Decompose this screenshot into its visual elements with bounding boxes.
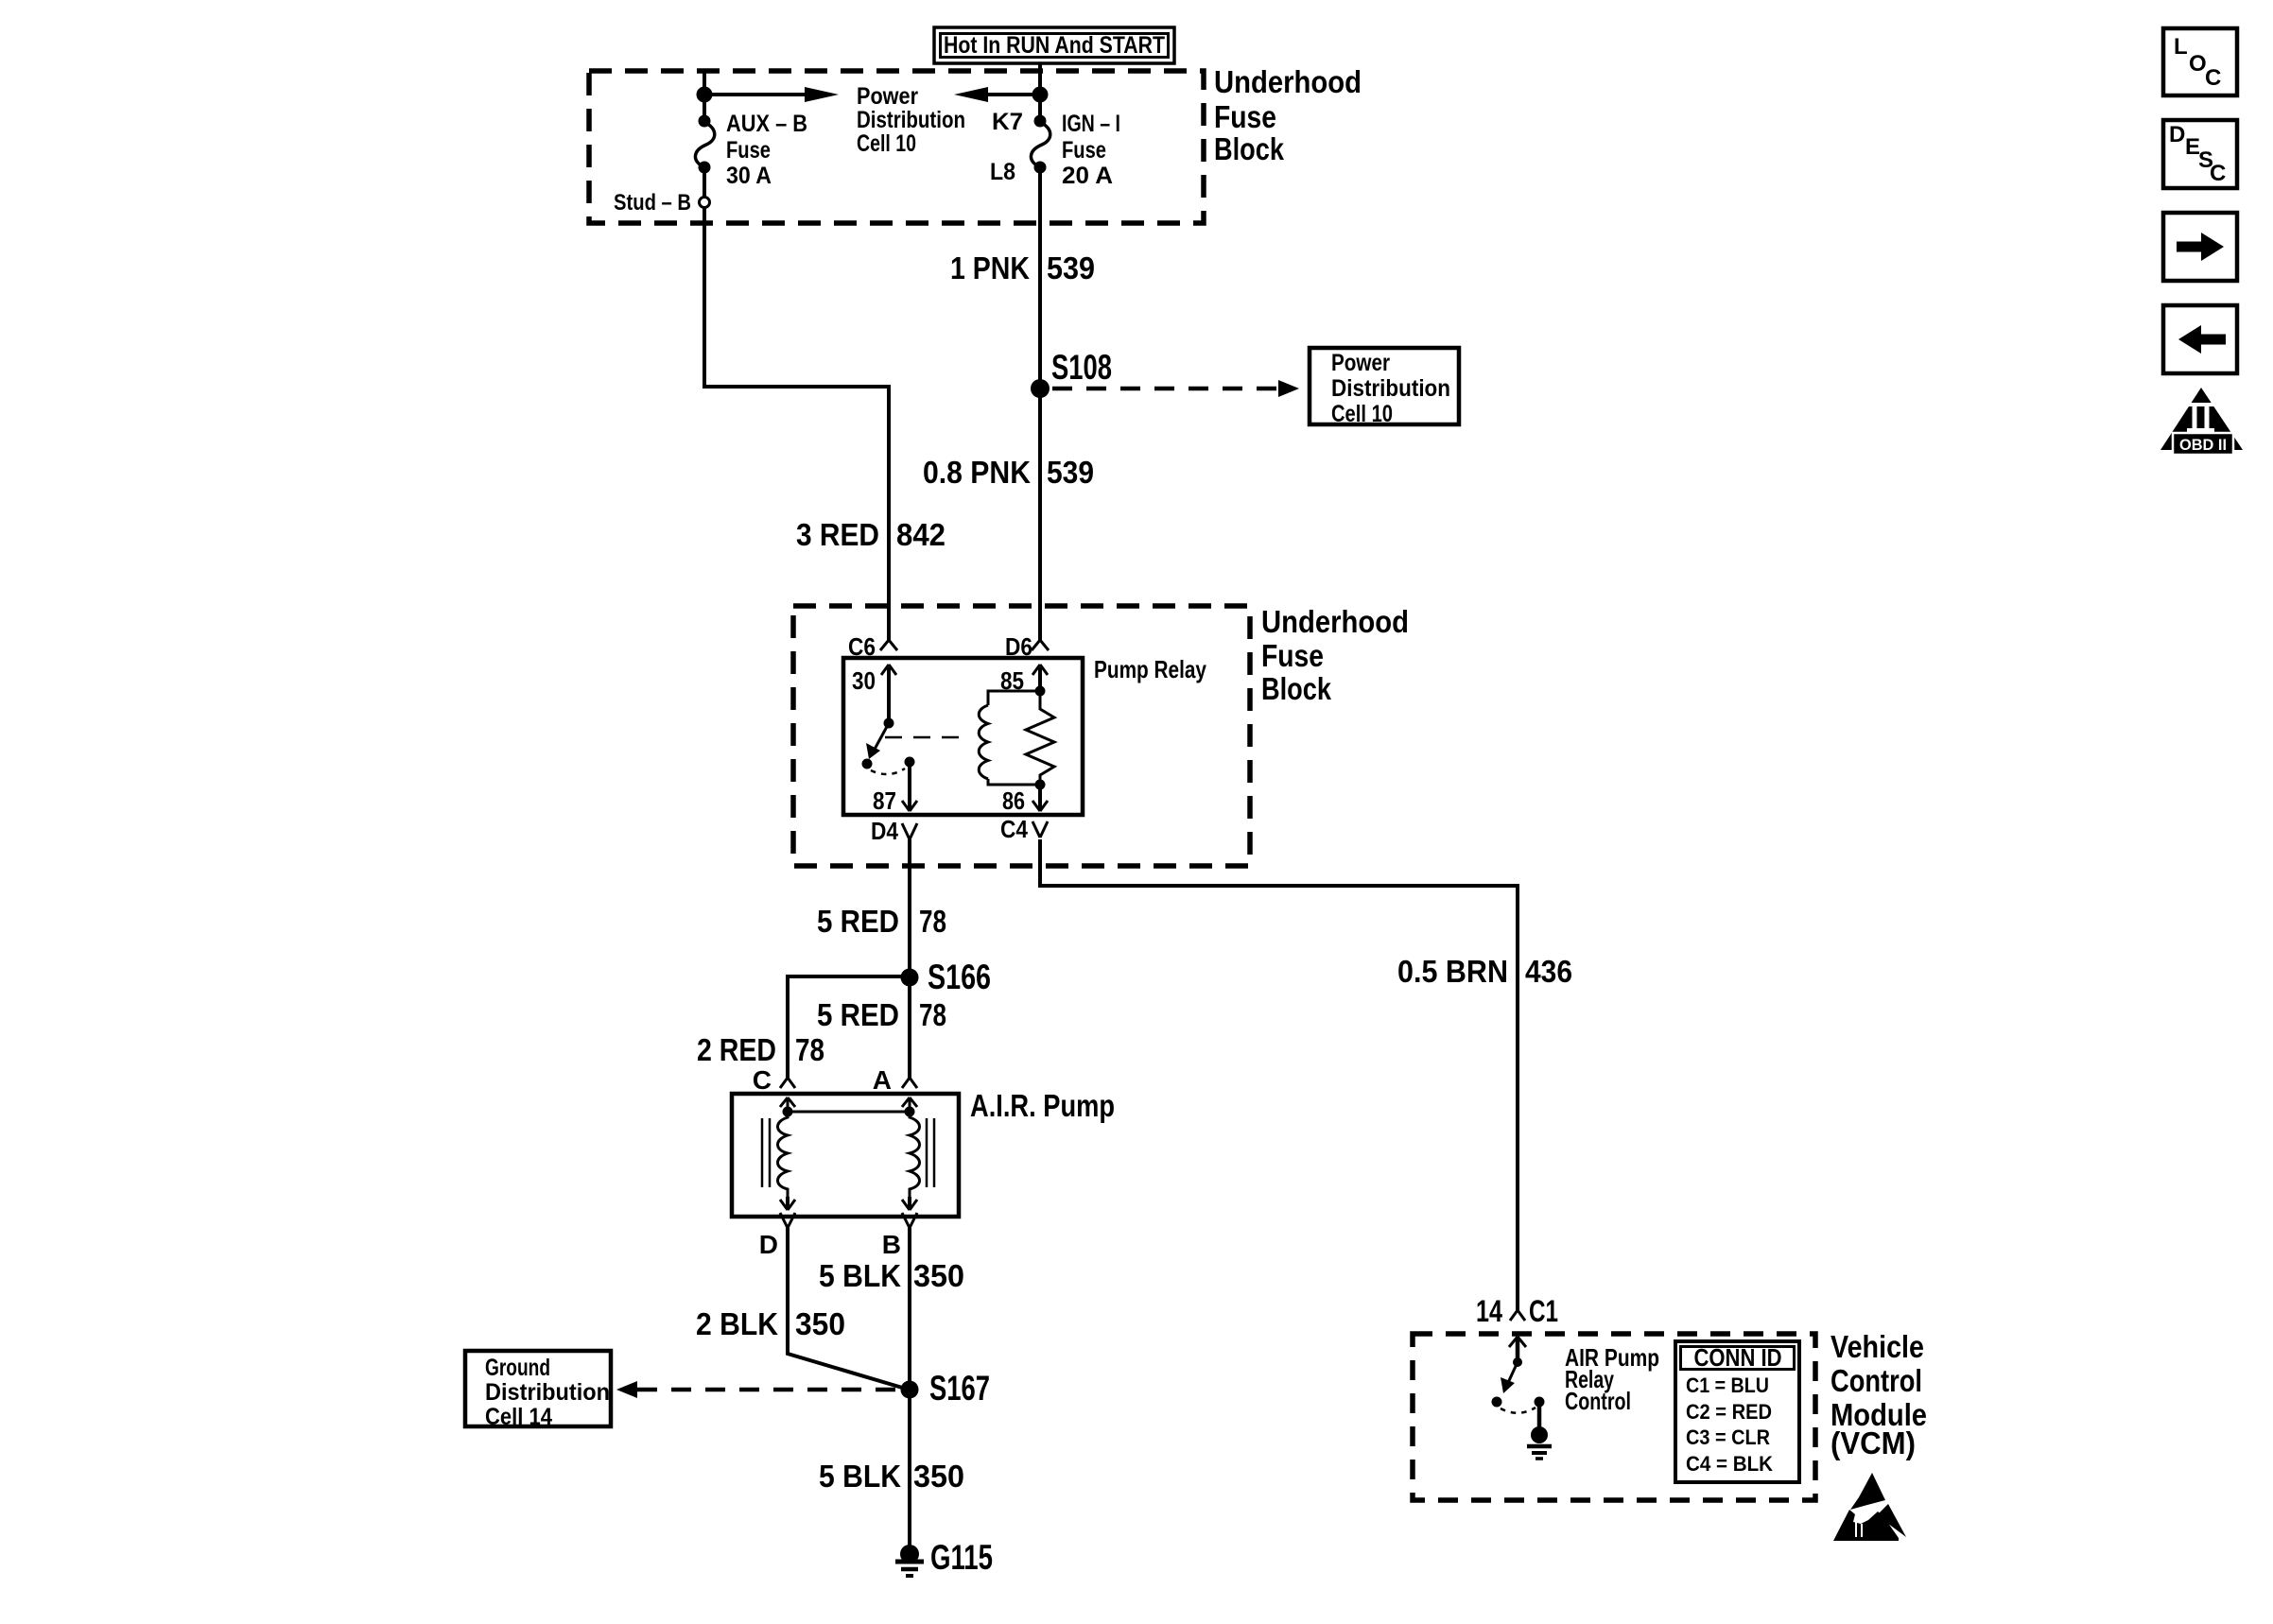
pump brush bars left (762, 1118, 770, 1187)
dashed arrow S108 to Power Distribution Cell 10 (1052, 380, 1299, 397)
pump left winding (778, 1097, 796, 1210)
arrow to Power Distribution (right-pointing) (704, 87, 839, 102)
connector pin 14 C1 (1476, 1294, 1558, 1328)
svg-text:Fuse: Fuse (726, 137, 771, 164)
arrow to Power Distribution (left-pointing) (954, 87, 1040, 102)
svg-text:OBD II: OBD II (2179, 436, 2227, 454)
svg-text:Power: Power (1331, 350, 1390, 376)
pump internal bus wire (788, 1111, 910, 1114)
svg-text:Stud – B: Stud – B (614, 190, 691, 216)
svg-text:Fuse: Fuse (1062, 137, 1106, 164)
svg-text:5 BLK: 5 BLK (819, 1258, 901, 1293)
svg-text:842: 842 (896, 517, 946, 552)
relay pin 30 arrow (852, 665, 896, 729)
svg-text:B: B (882, 1230, 901, 1259)
pump right winding (902, 1097, 920, 1210)
svg-text:30 A: 30 A (726, 163, 772, 189)
svg-text:Control: Control (1565, 1387, 1631, 1415)
splice S166 (901, 958, 992, 996)
connector A (pump) (873, 1065, 917, 1095)
CONN ID table (1675, 1341, 1799, 1482)
underhood fuse block (relay) dashed box (793, 606, 1250, 866)
svg-text:539: 539 (1047, 455, 1094, 490)
svg-text:Ground: Ground (485, 1355, 550, 1381)
svg-text:350: 350 (795, 1306, 845, 1341)
VCM internal ground (1527, 1402, 1552, 1459)
wire 3 RED 842 (704, 208, 946, 640)
svg-text:Cell 10: Cell 10 (1331, 401, 1393, 427)
connector C (pump) (753, 1065, 795, 1095)
pump brush bars right (927, 1118, 934, 1187)
svg-text:Vehicle: Vehicle (1831, 1329, 1924, 1364)
svg-text:C1: C1 (1529, 1294, 1558, 1328)
wire: left feed stub at fuse block top (703, 73, 706, 95)
text AIR Pump Relay Control (1565, 1343, 1659, 1415)
splice S167 (901, 1369, 991, 1408)
svg-text:D4: D4 (871, 817, 898, 845)
svg-text:(VCM): (VCM) (1831, 1425, 1916, 1460)
ground G115 (895, 1538, 993, 1577)
wire 0.8 PNK 539 (923, 389, 1094, 640)
svg-text:Fuse: Fuse (1214, 99, 1276, 134)
wire 2 BLK 350 (D to S167) (696, 1228, 909, 1390)
svg-text:S108: S108 (1051, 348, 1112, 387)
icon arrow left (2163, 305, 2237, 373)
svg-text:C1 = BLU: C1 = BLU (1686, 1373, 1769, 1397)
wire 5 RED 78 (S166 to pump A) (817, 977, 946, 1078)
node: junction dot on AUX-B feed (697, 87, 713, 103)
splice S108 (1031, 348, 1112, 398)
ESD sensitive device symbol (1833, 1473, 1906, 1541)
underhood fuse block (top) dashed box (589, 71, 1204, 223)
svg-text:350: 350 (913, 1459, 964, 1494)
svg-text:C: C (2205, 65, 2221, 91)
wire 1 PNK 539 (950, 167, 1095, 389)
svg-text:C3 = CLR: C3 = CLR (1686, 1425, 1770, 1449)
svg-text:Block: Block (1214, 131, 1285, 166)
svg-text:AUX – B: AUX – B (726, 111, 807, 137)
svg-text:C4: C4 (1000, 815, 1028, 843)
fuse AUX-B (695, 95, 807, 189)
svg-text:Power: Power (857, 83, 918, 110)
svg-text:A.I.R. Pump: A.I.R. Pump (970, 1088, 1115, 1123)
box Ground Distribution Cell 14 (465, 1351, 611, 1430)
svg-text:436: 436 (1525, 954, 1572, 989)
relay pin 85 arrow (1000, 665, 1048, 697)
icon DESC (2163, 120, 2237, 188)
svg-text:350: 350 (913, 1258, 964, 1293)
svg-text:87: 87 (873, 786, 896, 815)
dashed arrow S167 to Ground Distribution (616, 1381, 898, 1398)
wire 2 RED 78 (S166 branch to pump C) (697, 976, 910, 1078)
svg-text:0.8 PNK: 0.8 PNK (923, 455, 1031, 490)
connector D (pump) (759, 1213, 795, 1259)
header box Hot In RUN And START (934, 27, 1174, 63)
svg-text:78: 78 (919, 997, 946, 1032)
box Power Distribution Cell 10 (right) (1310, 348, 1459, 427)
VCM dashed box (1413, 1334, 1815, 1500)
relay armature switch (862, 723, 971, 774)
stud-B terminal (614, 167, 710, 216)
svg-text:78: 78 (795, 1032, 824, 1067)
svg-text:1 PNK: 1 PNK (950, 251, 1030, 285)
svg-text:Underhood: Underhood (1214, 64, 1362, 99)
svg-text:85: 85 (1000, 666, 1024, 695)
svg-text:Distribution: Distribution (485, 1379, 610, 1406)
wire 5 BLK 350 (S167 to G115) (819, 1390, 964, 1546)
svg-text:0.5 BRN: 0.5 BRN (1397, 954, 1508, 989)
svg-text:Cell 10: Cell 10 (857, 130, 916, 157)
svg-text:78: 78 (919, 904, 946, 939)
svg-text:Fuse: Fuse (1261, 638, 1324, 673)
connector D4 (871, 817, 917, 845)
icon arrow right (2163, 213, 2237, 281)
icon OBD II triangle (2160, 388, 2243, 455)
svg-text:D: D (759, 1230, 778, 1259)
svg-text:Distribution: Distribution (1331, 375, 1450, 402)
svg-text:S166: S166 (928, 958, 991, 996)
svg-text:L8: L8 (990, 159, 1015, 185)
pump relay box (843, 655, 1206, 815)
svg-text:3 RED: 3 RED (796, 517, 879, 552)
svg-text:K7: K7 (992, 109, 1023, 135)
svg-text:Cell 14: Cell 14 (485, 1404, 552, 1430)
svg-text:20 A: 20 A (1062, 163, 1113, 189)
label Vehicle Control Module (VCM) (1831, 1329, 1927, 1460)
label Underhood Fuse Block (top) (1214, 64, 1362, 166)
svg-text:O: O (2189, 51, 2207, 77)
connector D6 (1005, 632, 1049, 661)
svg-text:C: C (753, 1065, 772, 1095)
svg-text:5 RED: 5 RED (817, 997, 899, 1032)
svg-text:Underhood: Underhood (1261, 604, 1409, 639)
icon LOC (2163, 28, 2237, 95)
connector B (pump) (882, 1213, 917, 1259)
svg-text:Control: Control (1831, 1363, 1922, 1398)
wire: header feed down into fuse block (1038, 63, 1042, 95)
connector C6 (848, 632, 897, 661)
svg-text:C: C (2210, 161, 2226, 186)
svg-text:S167: S167 (929, 1369, 990, 1408)
svg-text:D: D (2169, 122, 2185, 147)
svg-text:Hot In RUN And START: Hot In RUN And START (944, 32, 1165, 59)
svg-text:Distribution: Distribution (857, 107, 965, 133)
relay coil (979, 691, 1040, 785)
node: junction dot on IGN-I feed (1032, 87, 1049, 103)
wire 5 RED 78 (relay D4 to S166) (817, 839, 946, 977)
wire 5 BLK 350 (B to S167) (819, 1228, 964, 1390)
svg-text:G115: G115 (930, 1538, 993, 1577)
svg-text:IGN – I: IGN – I (1062, 111, 1120, 137)
svg-text:539: 539 (1047, 251, 1095, 285)
relay pin 86 arrow (1002, 780, 1048, 816)
svg-text:Pump Relay: Pump Relay (1094, 655, 1206, 683)
A.I.R. pump box (732, 1088, 1115, 1217)
svg-text:2 BLK: 2 BLK (696, 1306, 778, 1341)
wire 0.5 BRN 436 (C4 to VCM C1) (1040, 839, 1572, 1310)
svg-text:2 RED: 2 RED (697, 1032, 776, 1067)
connector C4 (1000, 815, 1048, 843)
VCM driver switch (1492, 1337, 1545, 1413)
svg-text:A: A (873, 1065, 892, 1095)
svg-text:Block: Block (1261, 671, 1332, 706)
svg-text:86: 86 (1002, 786, 1025, 815)
fuse IGN-I (990, 95, 1120, 189)
text Power Distribution Cell 10 (inside fuse block) (857, 83, 965, 157)
svg-text:30: 30 (852, 666, 876, 695)
relay pin 87 arrow (873, 762, 917, 815)
svg-text:L: L (2174, 34, 2188, 60)
svg-text:14: 14 (1476, 1294, 1502, 1328)
svg-text:C4 = BLK: C4 = BLK (1686, 1452, 1773, 1476)
svg-text:5 BLK: 5 BLK (819, 1459, 901, 1494)
label Underhood Fuse Block (relay) (1261, 604, 1409, 706)
svg-text:C2 = RED: C2 = RED (1686, 1400, 1772, 1424)
relay resistor (1026, 691, 1054, 785)
svg-text:CONN ID: CONN ID (1694, 1343, 1782, 1372)
svg-text:5 RED: 5 RED (817, 904, 899, 939)
